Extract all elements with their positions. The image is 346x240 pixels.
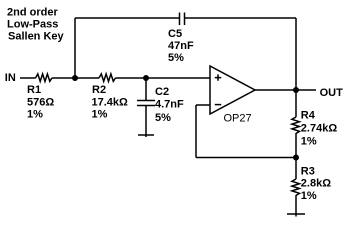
wire: inverting input lead <box>196 104 210 106</box>
pin -: inverting input mark <box>215 104 221 106</box>
node C: junction R4/R3 <box>293 155 299 161</box>
label C5 value <box>168 28 194 64</box>
ground (C2) <box>138 134 154 136</box>
title note <box>7 6 65 42</box>
node OUT label <box>320 87 344 99</box>
wire: R3 bottom lead <box>295 197 297 217</box>
wire: op-amp output <box>255 89 316 91</box>
svg-text:R1: R1 <box>27 84 41 96</box>
svg-text:OP27: OP27 <box>224 113 252 125</box>
label R1 value <box>27 84 54 121</box>
wire: top feedback right segment <box>185 17 297 19</box>
svg-text:1%: 1% <box>301 135 317 147</box>
capacitor C2 <box>137 101 155 106</box>
pin +: non-inverting input mark <box>215 74 221 80</box>
capacitor C5 <box>180 13 185 26</box>
wire: C2 top lead <box>145 78 147 101</box>
label R3 value <box>301 165 331 202</box>
svg-text:47nF: 47nF <box>168 40 194 52</box>
wire: R1 to R2 <box>52 77 99 79</box>
wire: R2 to op-amp + input <box>115 77 210 79</box>
wire: IN lead to R1 <box>20 77 36 79</box>
resistor R4 <box>292 117 300 136</box>
svg-text:R2: R2 <box>92 84 106 96</box>
wire: bottom feedback segment <box>196 157 296 159</box>
svg-text:Low-Pass: Low-Pass <box>7 18 58 30</box>
svg-text:Sallen Key: Sallen Key <box>8 30 65 42</box>
svg-text:4.7nF: 4.7nF <box>155 99 184 111</box>
svg-text:OUT: OUT <box>320 87 344 99</box>
svg-text:1%: 1% <box>27 109 43 121</box>
svg-text:IN: IN <box>5 72 16 84</box>
svg-text:C5: C5 <box>168 28 182 40</box>
wire: feedback drop to output node <box>295 18 297 90</box>
node IN label <box>5 72 16 84</box>
label R2 value <box>92 84 129 121</box>
svg-text:1%: 1% <box>92 109 108 121</box>
wire: C2 bottom lead <box>145 106 147 138</box>
svg-text:5%: 5% <box>168 52 184 64</box>
wire: R4 top lead <box>295 90 297 117</box>
svg-text:C2: C2 <box>155 86 169 98</box>
resistor R1 <box>36 74 52 82</box>
svg-text:R4: R4 <box>301 110 316 122</box>
resistor R2 <box>99 74 115 82</box>
svg-text:576Ω: 576Ω <box>27 96 54 108</box>
svg-text:2.74kΩ: 2.74kΩ <box>301 123 338 135</box>
node OUT <box>293 87 299 93</box>
svg-text:R3: R3 <box>301 165 315 177</box>
wire: top feedback left segment <box>75 17 180 19</box>
label U1: OP27 <box>224 113 252 125</box>
resistor R3 <box>292 179 300 197</box>
svg-text:5%: 5% <box>155 112 171 124</box>
wire: R3 top lead <box>295 158 297 180</box>
svg-text:2nd order: 2nd order <box>7 6 58 18</box>
wire: R4 bottom lead <box>295 136 297 158</box>
node B: junction R2/C2 <box>143 75 149 81</box>
svg-text:2.8kΩ: 2.8kΩ <box>301 178 331 190</box>
svg-text:1%: 1% <box>301 190 317 202</box>
label C2 value <box>155 86 184 124</box>
wire: feedback left drop <box>195 105 197 158</box>
svg-text:17.4kΩ: 17.4kΩ <box>92 96 129 108</box>
node A: junction R1/feedback <box>72 75 78 81</box>
label R4 value <box>301 110 338 148</box>
ground <box>287 213 305 215</box>
wire: feedback riser from node A <box>74 18 76 78</box>
op-amp U1 <box>210 66 255 114</box>
